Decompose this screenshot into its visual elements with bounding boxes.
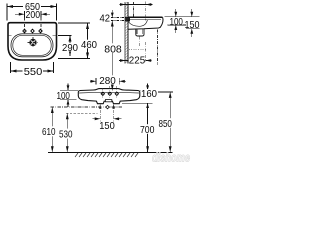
front drain stub bbox=[105, 100, 111, 102]
svg-text:290: 290 bbox=[62, 43, 78, 54]
plan view outline bbox=[8, 23, 57, 60]
trap pipe axis bbox=[139, 37, 141, 48]
dimension 200 bbox=[15, 11, 50, 18]
svg-text:610: 610 bbox=[42, 127, 56, 138]
plan tap axis centerlines bbox=[25, 18, 42, 32]
dimension 100 (front left) bbox=[60, 90, 78, 100]
wall section hatch bbox=[125, 2, 128, 64]
front view outline bbox=[78, 89, 140, 104]
svg-text:42: 42 bbox=[100, 13, 111, 24]
dimension 150 (front bottom) bbox=[100, 105, 113, 123]
dimension 100 (side) bbox=[174, 9, 177, 33]
plan bowl inner bbox=[13, 35, 51, 55]
dotted hidden line bbox=[129, 49, 146, 51]
side view front and bottom profile bbox=[128, 17, 163, 29]
side view rim bbox=[128, 16, 162, 18]
plan drain rosette bbox=[27, 37, 38, 48]
svg-text:dishome: dishome bbox=[152, 153, 190, 165]
svg-text:200: 200 bbox=[26, 10, 41, 21]
dimension 808 bbox=[111, 21, 114, 91]
front view inner top line bbox=[79, 91, 139, 94]
side view trap bbox=[136, 29, 144, 36]
dimension 650 bbox=[7, 4, 57, 21]
plan tap hole diamonds bbox=[23, 29, 42, 33]
dimension 42 bbox=[111, 17, 130, 20]
svg-text:100: 100 bbox=[169, 17, 183, 28]
drain level centerline bbox=[51, 106, 123, 108]
dimension 850 bbox=[158, 91, 173, 93]
dimension 610 bbox=[51, 107, 54, 152]
svg-text:160: 160 bbox=[141, 89, 157, 100]
svg-text:700: 700 bbox=[140, 125, 155, 136]
dimension 460 bbox=[58, 23, 90, 59]
front tap axes bbox=[103, 86, 117, 98]
svg-text:530: 530 bbox=[59, 129, 73, 140]
tap axis side view bbox=[145, 2, 147, 62]
dimension 290 bbox=[58, 36, 72, 57]
dimension 700 bbox=[146, 103, 149, 152]
floor hatch bbox=[75, 153, 138, 157]
svg-text:550: 550 bbox=[24, 67, 43, 78]
drain diamond bbox=[106, 105, 109, 108]
wall fixing bbox=[125, 17, 130, 22]
tab arrowheads bbox=[99, 104, 115, 108]
svg-text:150: 150 bbox=[99, 121, 115, 132]
extension centerline x157.5 bbox=[157, 30, 159, 65]
dimension 530 bbox=[66, 113, 69, 152]
side view right extension lines bbox=[165, 17, 200, 29]
svg-text:225: 225 bbox=[129, 56, 146, 67]
side view bowl inner bbox=[128, 20, 147, 27]
svg-text:808: 808 bbox=[104, 44, 122, 55]
svg-text:850: 850 bbox=[158, 119, 172, 130]
dimension 550 bbox=[11, 62, 54, 73]
dimension 150 (side) bbox=[190, 9, 193, 37]
svg-text:460: 460 bbox=[81, 40, 97, 51]
svg-text:100: 100 bbox=[56, 91, 70, 102]
dimension 160 bbox=[122, 90, 153, 103]
floor line bbox=[48, 152, 172, 154]
top leader line bbox=[120, 3, 153, 6]
dimension 280 bbox=[90, 78, 126, 85]
plan bowl outer bbox=[11, 34, 53, 57]
dashed line 530 level bbox=[66, 112, 98, 114]
svg-text:150: 150 bbox=[185, 20, 200, 31]
front tap diamonds bbox=[101, 92, 118, 95]
plan deck side lines bbox=[9, 35, 56, 37]
dimension 225 bbox=[119, 59, 152, 62]
svg-text:280: 280 bbox=[99, 76, 116, 87]
